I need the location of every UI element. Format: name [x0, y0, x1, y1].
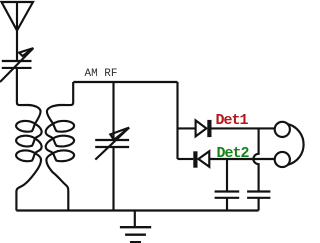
svg-text:AM RF: AM RF	[85, 68, 118, 80]
antenna ANT1	[2, 2, 34, 61]
capacitor C4 plates	[247, 192, 270, 198]
diode Det1 cathode bar	[207, 120, 211, 137]
wire to diode Det2 cathode	[178, 158, 194, 160]
wire to diode Det1 anode	[178, 127, 196, 129]
wire junction drop to C4 with hop over Det2 wire	[253, 128, 258, 191]
wire C3 bottom lead	[226, 198, 228, 210]
diode Det2 triangle	[198, 151, 209, 167]
svg-text:Det1: Det1	[216, 112, 249, 129]
ground GND stub	[134, 211, 136, 227]
ground GND bar 3	[130, 241, 141, 243]
variable capacitor C1 arrow	[0, 48, 33, 82]
wire Det2 to phones	[209, 158, 274, 160]
wire right vertical feed	[176, 82, 178, 159]
diode Det2 cathode bar	[193, 151, 197, 167]
headphones P1 top earpiece	[275, 122, 290, 137]
capacitor C3 plates	[215, 192, 240, 198]
headphones P1 headband	[288, 124, 304, 165]
wire tuning cap bottom lead	[112, 147, 114, 210]
wire bottom bus	[16, 209, 258, 211]
wire Det1 to phones	[212, 127, 275, 129]
wire junction drop to C3	[226, 159, 228, 191]
ground GND bar 1	[120, 226, 151, 228]
headphones P1 bottom earpiece	[275, 152, 290, 167]
variable capacitor C1 (antenna trimmer) plates	[2, 61, 32, 68]
wire tuning cap top lead	[112, 82, 114, 140]
inductor L1 (primary coil) with antenna lead	[16, 69, 42, 211]
wire C4 bottom lead	[258, 198, 260, 210]
diode Det1 triangle	[196, 120, 207, 136]
wire top bus	[73, 81, 177, 83]
ground GND bar 2	[125, 233, 146, 235]
variable capacitor C2 (tuning) plates	[95, 140, 129, 147]
variable capacitor C2 arrow	[95, 128, 129, 160]
svg-text:Det2: Det2	[217, 145, 250, 162]
inductor L2 (secondary coil) with top feed wire	[46, 82, 74, 211]
